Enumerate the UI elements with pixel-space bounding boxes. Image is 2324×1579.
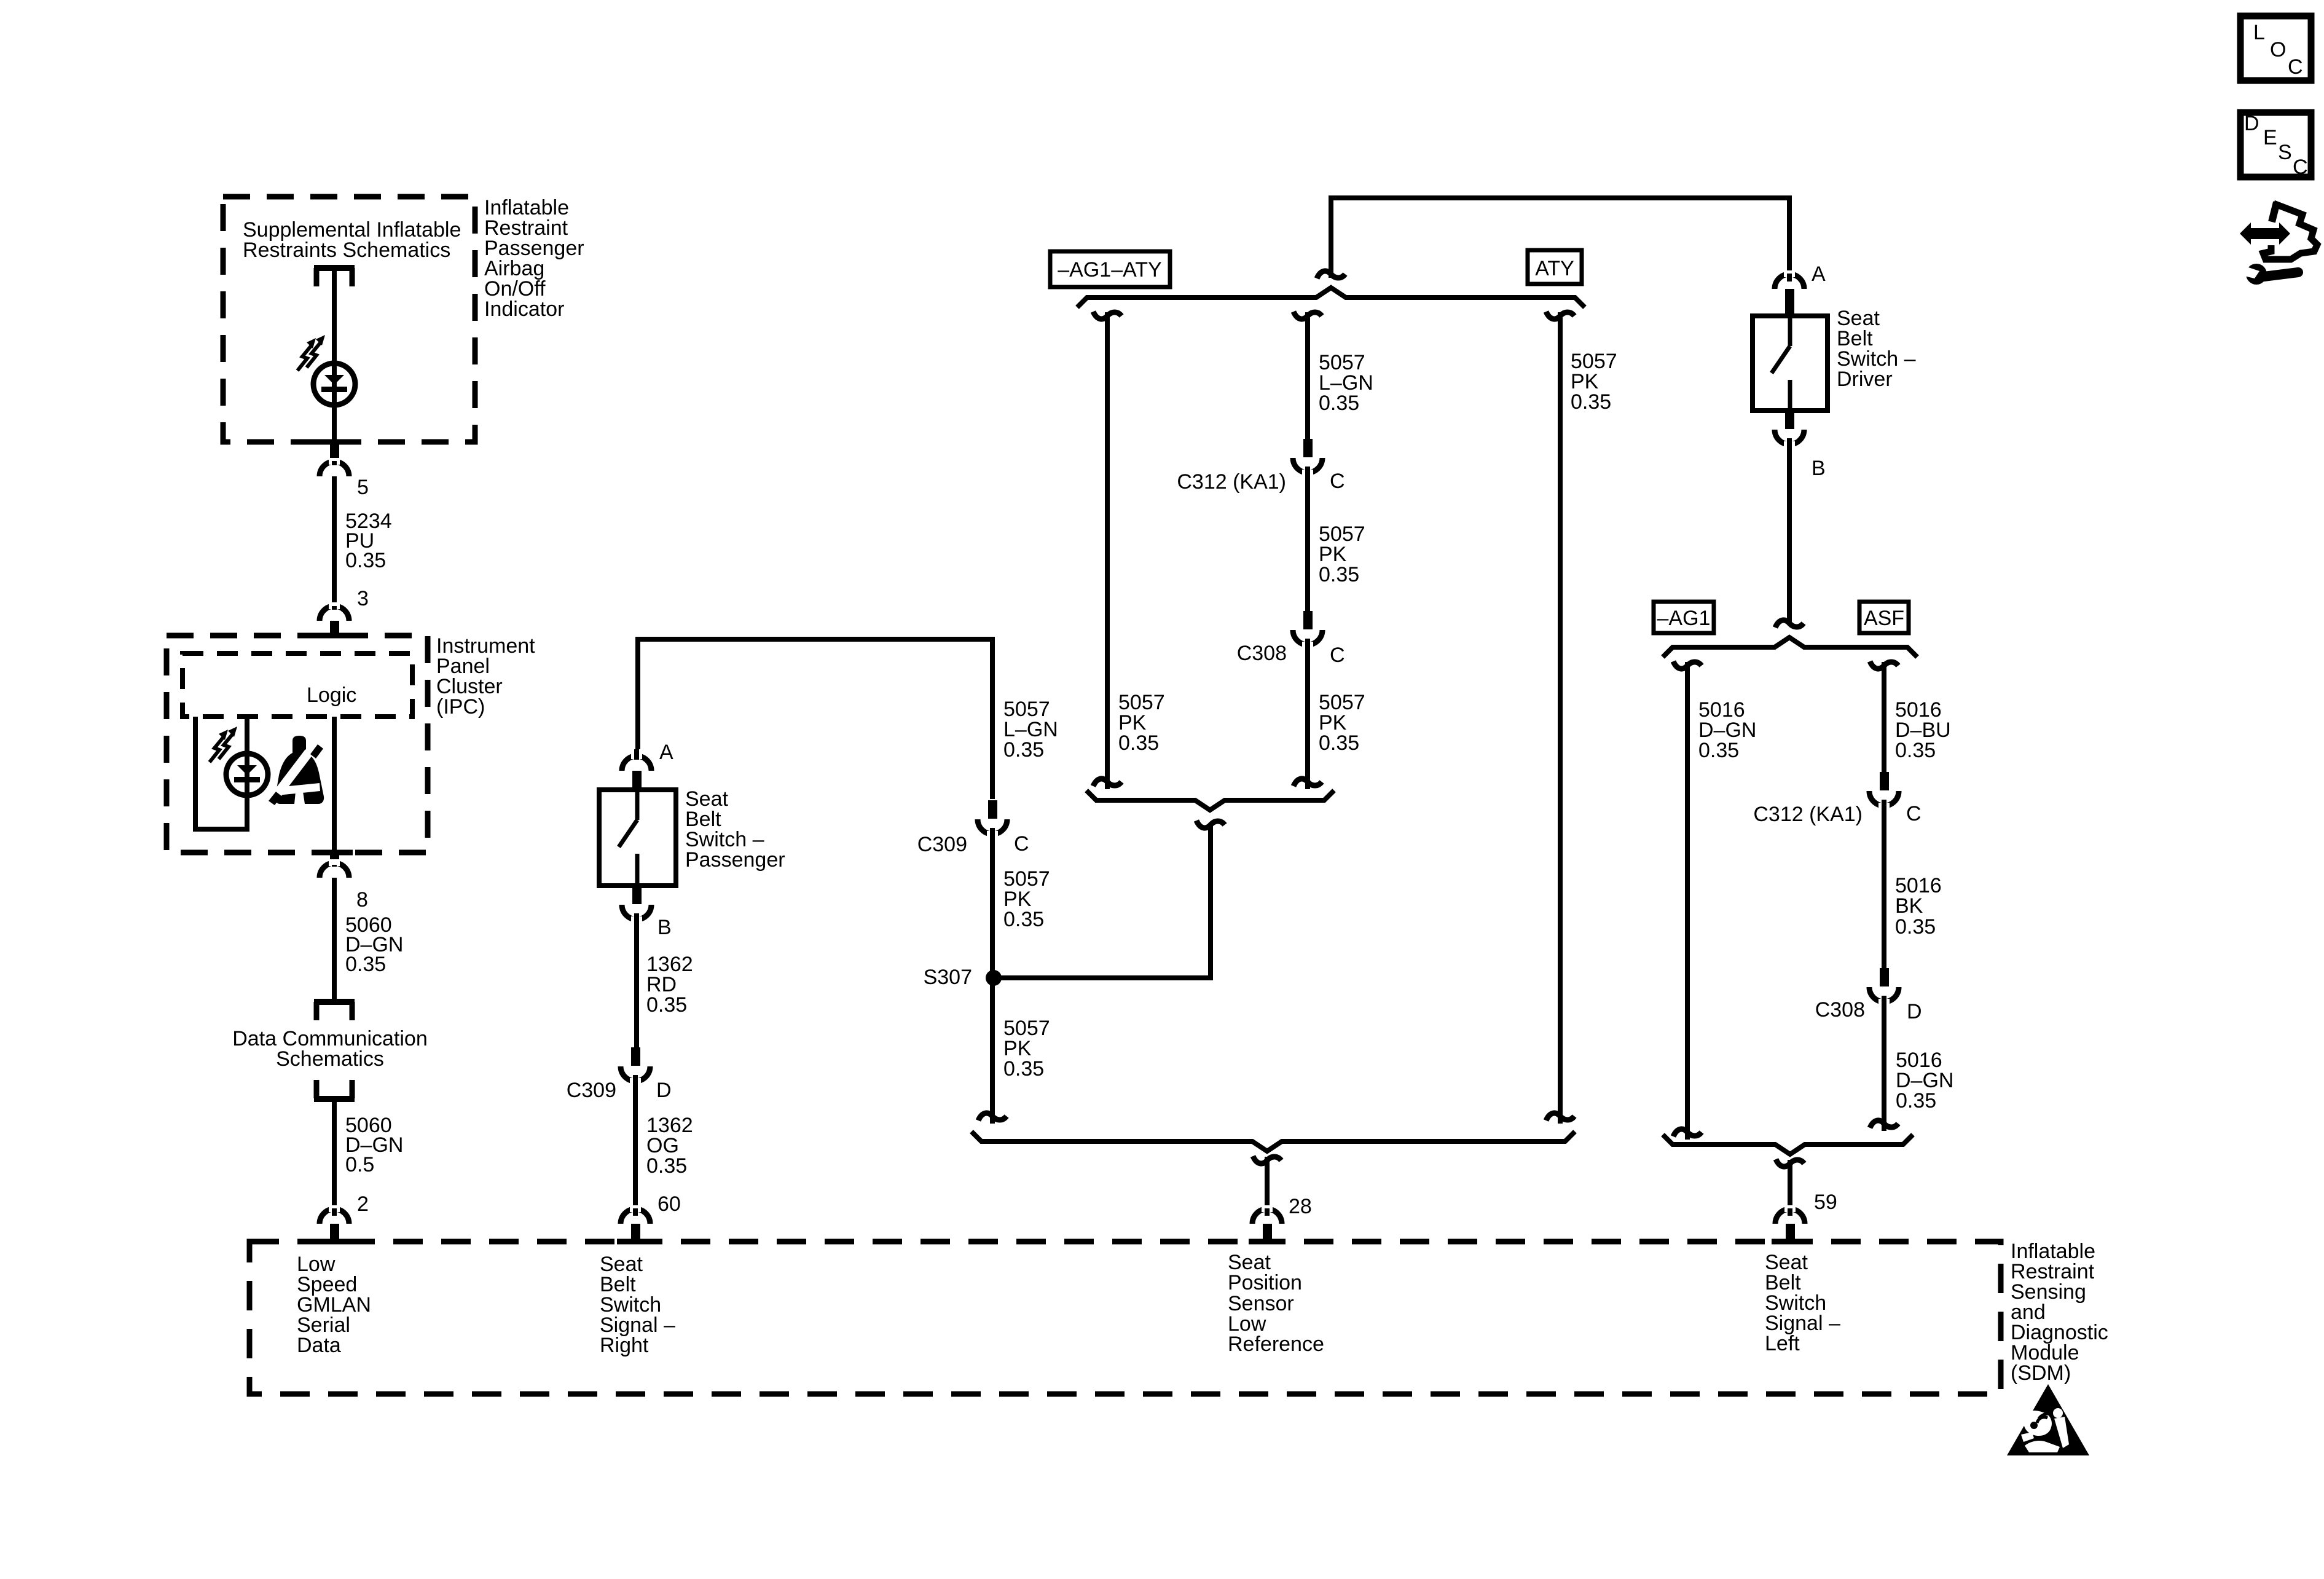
svg-text:ASF: ASF <box>1864 607 1904 630</box>
hook: left 5016 bottom <box>1673 1129 1702 1136</box>
svg-text:L: L <box>2253 21 2265 44</box>
svg-text:D: D <box>656 1079 672 1102</box>
hook: pin 28 riser top <box>1253 1156 1281 1164</box>
svg-text:2: 2 <box>357 1192 369 1216</box>
svg-text:28: 28 <box>1289 1195 1312 1218</box>
svg-text:D: D <box>2244 112 2259 135</box>
label: 5057 L-GN 0.35 (middle child) <box>1319 351 1373 415</box>
svg-text:0.35: 0.35 <box>646 1154 687 1178</box>
svg-text:C: C <box>2293 156 2308 179</box>
svg-text:0.35: 0.35 <box>1319 392 1359 415</box>
svg-text:0.35: 0.35 <box>1118 731 1159 755</box>
wire 5057 PK 0.35 (C312 to C308) <box>1305 467 1310 612</box>
label: Seat Belt Switch - Driver <box>1837 307 1916 391</box>
label: 5057 PK 0.35 (middle lower) <box>1319 691 1365 755</box>
pin 2 terminal (cup + stub into SDM) <box>320 1205 349 1243</box>
svg-text:0.35: 0.35 <box>1896 1089 1936 1112</box>
connector C312 (KA1) pin C (right) <box>1869 772 1899 809</box>
svg-text:C: C <box>1014 832 1029 856</box>
hook: left child bottom <box>1093 779 1121 786</box>
wire 5016 D-BU 0.35 (right child) <box>1882 662 1886 773</box>
hook: child 5057 L-GN top <box>1294 312 1322 319</box>
svg-text:C: C <box>2288 55 2303 79</box>
svg-text:B: B <box>1812 457 1826 480</box>
wire: 5057 L-GN 0.35 (passenger to C309 C) label <box>1003 698 1058 762</box>
label: 5057 PK 0.35 (above S307) <box>1003 867 1050 931</box>
svg-text:0.35: 0.35 <box>1319 731 1359 755</box>
wire 1362 OG 0.35 <box>633 1075 638 1216</box>
svg-text:C309: C309 <box>567 1079 616 1102</box>
wire: brace to pin 59 <box>1788 1160 1792 1216</box>
svg-text:BK: BK <box>1895 894 1923 918</box>
wire 5057 PK 0.35 (S307 down) <box>990 978 995 1124</box>
svg-text:Right: Right <box>600 1334 649 1357</box>
svg-text:Indicator: Indicator <box>484 297 564 321</box>
wire 5016 BK 0.35 <box>1882 800 1886 969</box>
wire: brace to pin 28 <box>1265 1157 1270 1216</box>
icon box: DESC <box>2240 112 2311 179</box>
label: Instrument Panel Cluster (IPC) <box>436 634 535 719</box>
wire 5016 D-GN 0.35 (to pin 59 brace) <box>1882 996 1886 1131</box>
label: 1362 RD 0.35 <box>646 953 693 1017</box>
svg-text:S307: S307 <box>924 966 972 989</box>
brace: gather into pin 59 <box>1663 1135 1913 1154</box>
hook: ATY child top <box>1546 312 1574 319</box>
box: Inflatable Restraint Sensing and Diagnostic Module (dashed) <box>249 1242 2001 1394</box>
brace: gather left pair (output to S307 riser) <box>1086 790 1334 810</box>
pin A terminal of passenger switch <box>622 749 651 791</box>
svg-text:C: C <box>1330 644 1345 667</box>
brace: top distribution (-AG1-ATY / ATY) <box>1077 288 1585 307</box>
wire: top feed horizontal <box>1331 198 1789 282</box>
label: 5016 D-BU 0.35 <box>1895 698 1951 762</box>
wire: IPC main vertical <box>332 717 337 853</box>
svg-text:8: 8 <box>356 888 368 912</box>
svg-text:C312 (KA1): C312 (KA1) <box>1753 803 1863 826</box>
label: Supplemental Inflatable Restraints Schematics <box>243 218 461 262</box>
svg-text:B: B <box>658 916 672 939</box>
icon: SRS warning triangle <box>2007 1384 2089 1455</box>
wire 5057 PK 0.35 (left child of top brace) <box>1105 312 1110 789</box>
pin A terminal of driver switch <box>1775 270 1804 317</box>
svg-text:–AG1–ATY: –AG1–ATY <box>1058 258 1161 282</box>
svg-text:0.35: 0.35 <box>1003 738 1044 762</box>
wire 1362 RD 0.35 <box>634 913 639 1048</box>
label: 5016 BK 0.35 <box>1895 874 1942 939</box>
pin B terminal of passenger switch <box>622 886 651 923</box>
label: Low Speed GMLAN Serial Data <box>297 1253 371 1357</box>
label: Seat Belt Switch Signal - Left <box>1765 1251 1840 1355</box>
connector C308 pin D (right) <box>1869 968 1899 1006</box>
hook: child 5057 PK top <box>1093 312 1121 319</box>
svg-text:5: 5 <box>357 476 369 499</box>
hook: pin 59 riser top <box>1776 1159 1804 1167</box>
svg-text:A: A <box>659 741 673 764</box>
label: 5057 PK 0.35 (left child) <box>1118 691 1165 755</box>
hook: ATY branch bottom <box>1546 1113 1574 1120</box>
svg-text:C308: C308 <box>1815 998 1865 1022</box>
hook: driver wire bottom <box>1775 620 1804 628</box>
svg-text:0.35: 0.35 <box>1698 739 1739 762</box>
lightning arrows of IPC LED <box>210 726 237 762</box>
icon box: LOC <box>2240 16 2311 81</box>
hook: 5016 D-BU child top <box>1870 661 1898 669</box>
svg-text:Data: Data <box>297 1334 341 1357</box>
svg-text:ATY: ATY <box>1535 257 1574 280</box>
svg-text:Restraints Schematics: Restraints Schematics <box>243 238 450 262</box>
svg-text:0.35: 0.35 <box>1319 563 1359 586</box>
svg-text:–AG1: –AG1 <box>1657 607 1711 630</box>
svg-text:C: C <box>1330 470 1345 493</box>
splice S307 <box>986 970 1002 986</box>
tag box: -AG1 <box>1654 602 1714 633</box>
svg-text:0.35: 0.35 <box>1571 390 1611 414</box>
label: 5057 PK 0.35 (below S307) <box>1003 1017 1050 1081</box>
label: Data Communication Schematics <box>232 1027 427 1071</box>
label: 5057 PK 0.35 (middle) <box>1319 522 1365 586</box>
LED: seat belt indicator lamp in IPC <box>226 754 268 795</box>
svg-text:0.35: 0.35 <box>1003 908 1044 931</box>
label: 1362 OG 0.35 <box>646 1114 693 1178</box>
wire: S307 to branch riser <box>994 826 1211 978</box>
wire: top horizontal of passenger branch <box>638 639 992 799</box>
off-page connector bracket (down) above Data Communication <box>314 1002 355 1020</box>
svg-text:A: A <box>1812 262 1826 286</box>
icon: diagnostic arrow / body / wrench <box>2240 202 2317 285</box>
svg-text:C: C <box>1906 802 1922 825</box>
brace: driver distribution (-AG1 / ASF) <box>1663 637 1917 657</box>
connector C309 pin C (in-line) <box>978 800 1007 838</box>
label: 5016 D-GN 0.35 (left) <box>1698 698 1756 762</box>
wire 5057 L-GN 0.35 (middle child) <box>1305 312 1310 439</box>
label: Inflatable Restraint Sensing and Diagnostic Module (SDM) <box>2011 1240 2108 1385</box>
pin 3 terminal (cup + stub into IPC) <box>320 602 349 637</box>
svg-text:0.35: 0.35 <box>1895 915 1936 939</box>
svg-text:0.35: 0.35 <box>646 993 687 1017</box>
label: Seat Belt Switch - Passenger <box>685 787 785 872</box>
hook: middle child bottom <box>1294 779 1322 786</box>
lightning arrows of LED indicator <box>297 335 325 371</box>
svg-text:0.35: 0.35 <box>345 549 386 572</box>
tag box: -AG1-ATY <box>1050 251 1170 287</box>
label: Seat Belt Switch Signal - Right <box>600 1253 675 1357</box>
label: 5016 D-GN 0.35 (lower right) <box>1896 1049 1953 1112</box>
svg-text:D: D <box>1907 1000 1922 1023</box>
box: Logic (inner dashed) <box>183 653 412 717</box>
box: Instrument Panel Cluster (dashed) <box>167 636 428 853</box>
connector C309 pin D (in-line) <box>621 1047 650 1085</box>
svg-text:(SDM): (SDM) <box>2011 1361 2071 1385</box>
switch: Seat Belt Switch - Passenger <box>599 790 676 886</box>
label: 5060 D-GN 0.35 <box>345 913 403 976</box>
svg-text:C308: C308 <box>1237 642 1287 665</box>
tag box: ASF <box>1859 602 1909 633</box>
hook: riser top <box>1196 821 1225 828</box>
wire 5060 D-GN 0.5 <box>332 1100 337 1216</box>
svg-text:Passenger: Passenger <box>685 848 785 872</box>
icon: seat belt person <box>269 736 324 805</box>
hook: passenger branch bottom <box>978 1113 1007 1120</box>
svg-text:O: O <box>2270 38 2286 61</box>
brace: gather into pin 28 <box>972 1132 1575 1151</box>
connector C312 (KA1) pin C (middle) <box>1293 439 1322 476</box>
svg-text:(IPC): (IPC) <box>436 695 485 719</box>
wire: bracket to LED indicator <box>332 271 337 442</box>
wire 5060 D-GN 0.35 <box>332 878 337 1002</box>
wire: driver switch to brace <box>1787 438 1792 622</box>
svg-text:Driver: Driver <box>1837 368 1893 391</box>
hook: right 5016 bottom <box>1870 1120 1898 1128</box>
svg-text:59: 59 <box>1814 1191 1837 1214</box>
label: 5060 D-GN 0.5 <box>345 1114 403 1176</box>
label: 5234 PU 0.35 <box>345 510 392 572</box>
label: Seat Position Sensor Low Reference <box>1228 1251 1324 1356</box>
wire: LED branch loop <box>195 717 247 829</box>
svg-text:Reference: Reference <box>1228 1333 1324 1356</box>
pin 59 terminal (cup + stub into SDM) <box>1775 1205 1805 1243</box>
wire 5057 PK 0.35 (C309 C to S307) <box>990 828 995 978</box>
svg-text:S: S <box>2278 141 2292 164</box>
svg-text:Schematics: Schematics <box>276 1047 384 1071</box>
svg-text:0.35: 0.35 <box>345 953 386 976</box>
svg-text:Left: Left <box>1765 1332 1800 1355</box>
svg-text:0.35: 0.35 <box>1895 739 1936 762</box>
hook: 5016 D-GN child top <box>1673 661 1702 669</box>
off-page connector bracket (top, under Restraints Schematics) <box>314 268 355 286</box>
svg-text:E: E <box>2263 126 2277 149</box>
switch: Seat Belt Switch - Driver <box>1753 316 1827 411</box>
label: Inflatable Restraint Passenger Airbag On/Off Indicator <box>484 196 584 321</box>
LED: passenger airbag on/off indicator lamp <box>313 363 355 405</box>
svg-text:0.5: 0.5 <box>345 1153 374 1176</box>
svg-text:3: 3 <box>357 587 369 610</box>
tag box: ATY <box>1528 250 1582 284</box>
hook: feed into top brace <box>1317 271 1345 278</box>
svg-text:C312 (KA1): C312 (KA1) <box>1177 470 1286 494</box>
off-page connector bracket (up) below Data Communication <box>314 1080 355 1099</box>
label: 5057 PK 0.35 (ATY branch) <box>1571 350 1617 414</box>
wire 5057 PK 0.35 (C308 down) <box>1305 639 1310 789</box>
svg-text:0.35: 0.35 <box>1003 1057 1044 1081</box>
svg-text:Logic: Logic <box>307 683 356 707</box>
wire 5234 PU 0.35 <box>332 476 337 606</box>
dash anchor segments at wire crossings <box>316 442 1808 1242</box>
svg-text:60: 60 <box>658 1192 681 1216</box>
pin 5 terminal (male stub + female cup) <box>320 441 349 476</box>
wire 5057 PK 0.35 (ATY branch) <box>1558 312 1563 1124</box>
box: Supplemental Inflatable Restraints Schematics (dashed) <box>223 197 475 442</box>
wire 5016 D-GN 0.35 (left child) <box>1685 662 1690 1140</box>
svg-text:Position: Position <box>1228 1271 1302 1294</box>
pin 28 terminal (cup + stub into SDM) <box>1252 1205 1282 1243</box>
svg-text:C309: C309 <box>917 833 967 856</box>
connector C308 pin C (middle) <box>1293 611 1322 648</box>
pin 8 terminal (stub + cup) <box>320 851 349 878</box>
pin B terminal of driver switch <box>1775 411 1804 448</box>
pin 60 terminal (cup + stub into SDM) <box>621 1205 650 1243</box>
